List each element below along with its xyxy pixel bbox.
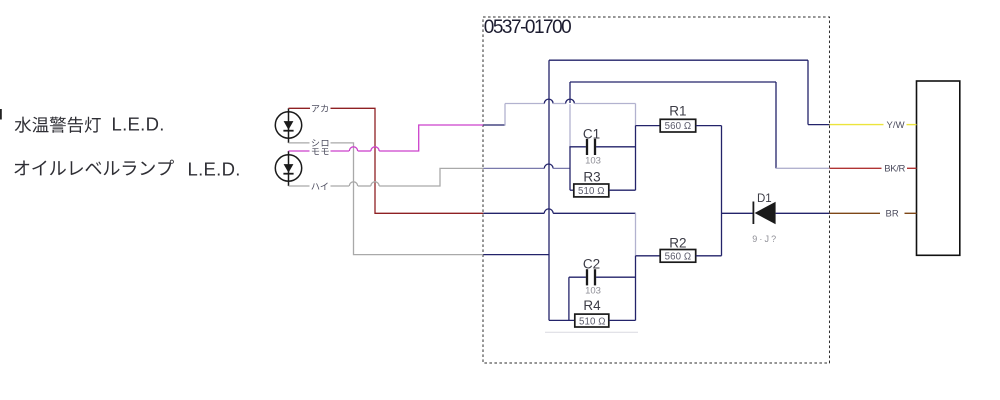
resistor R1 lead left (636, 125, 661, 127)
wire aka hop over rail (544, 209, 553, 213)
wire momo hop over rail 549 (544, 99, 553, 103)
resistor R3 lead left (570, 189, 574, 191)
wire label momo (312, 148, 329, 155)
faint artifact line (545, 331, 638, 333)
wire BR brown (830, 212, 881, 214)
resistor R2 lead right (696, 255, 722, 257)
dashed module boundary box (483, 17, 830, 363)
wire aka red run to box (331, 108, 484, 213)
svg-text:560 Ω: 560 Ω (665, 251, 692, 262)
wire shiro navy inside box (483, 254, 549, 256)
wire hai gray run c (379, 168, 483, 186)
wire hai gray run b (358, 185, 371, 187)
resistor R3 body (574, 184, 609, 197)
svg-text:510 Ω: 510 Ω (579, 316, 606, 327)
net hai lavender stub to border (776, 167, 830, 169)
wire momo lavender riser (504, 104, 506, 126)
wire momo magenta run c (379, 125, 483, 151)
wire momo lavender drop to R1 (635, 104, 637, 126)
wire Y/W yellow (830, 124, 884, 126)
net hai vertical lower (569, 147, 571, 190)
resistor R4 lead left (549, 319, 575, 321)
svg-text:510 Ω: 510 Ω (578, 186, 605, 197)
wire BR stub (905, 212, 917, 214)
caption water temp warning LED (15, 117, 101, 133)
LED2 cathode bar (283, 173, 293, 175)
svg-text:R1: R1 (669, 104, 686, 119)
svg-text:L.E.D.: L.E.D. (188, 158, 241, 179)
net hai drop to BK/R (775, 82, 777, 168)
wire aka navy inside box (483, 212, 544, 214)
LED1 water-temp lamp circle (275, 112, 301, 138)
capacitor C1 plate left (586, 139, 588, 155)
svg-text:103: 103 (585, 155, 601, 166)
net hai vertical upper (569, 82, 571, 103)
wire momo navy stub inside box (483, 124, 505, 126)
wire hai slate inside box (483, 167, 544, 169)
wire aka navy to node R2 (553, 212, 635, 214)
node C1 left lavender riser (569, 104, 571, 147)
resistor R4 lead right (609, 319, 636, 321)
net momo vertical rail (635, 126, 637, 191)
svg-text:103: 103 (585, 286, 601, 297)
net rail shiro vertical (548, 60, 550, 320)
capacitor C1 plate right (594, 139, 596, 155)
LED2 oil-level lamp circle (275, 155, 301, 181)
diode D1 cathode bar (752, 202, 754, 225)
LED2 anode lead wire (288, 151, 290, 186)
LED2 diode triangle (284, 164, 294, 173)
svg-text:BR: BR (886, 209, 899, 220)
capacitor C2 lead left (569, 276, 586, 278)
caption oil level lamp LED (14, 160, 174, 176)
connector block (917, 81, 960, 255)
wire aka lavender drop to R2 (635, 213, 637, 256)
wire hai gray run a (331, 185, 350, 187)
wire momo hop over aka (371, 147, 379, 151)
LED1 cathode lead wire (288, 108, 290, 143)
net aka vertical rail (635, 256, 637, 321)
net shiro top bus (549, 59, 808, 61)
wire hai hop over rail 549 (544, 164, 553, 168)
node R1-R2-D1 vertical (721, 126, 723, 256)
wire momo magenta run a (331, 150, 350, 152)
wire momo lavender top run b (553, 103, 566, 105)
resistor R2 body (660, 250, 696, 263)
wire hai hop over aka (371, 182, 379, 186)
capacitor C2 plate left (586, 269, 588, 285)
resistor R1 lead right (696, 125, 722, 127)
wire BK/R stub (907, 167, 917, 169)
capacitor C2 lead right (596, 276, 635, 278)
diode D1 anode wire (722, 212, 754, 214)
svg-text:560 Ω: 560 Ω (665, 121, 692, 132)
edge mark (0, 109, 2, 120)
wire label hai (311, 182, 327, 189)
net hai top bus (570, 81, 776, 83)
wire hai gray segment from LED2 (289, 185, 310, 187)
wire BK/R red (830, 167, 882, 169)
resistor R4 body (575, 314, 609, 327)
wire momo hop over rail 570 (566, 99, 575, 103)
capacitor C1 lead left (569, 146, 586, 148)
svg-text:9·J?: 9·J? (752, 234, 778, 244)
svg-text:Y/W: Y/W (887, 120, 905, 131)
wire label shiro (312, 139, 329, 146)
net shiro navy stub to border (808, 124, 830, 126)
resistor R2 lead left (636, 255, 661, 257)
svg-text:C2: C2 (583, 257, 600, 272)
svg-text:0537-01700: 0537-01700 (484, 17, 571, 38)
LED1 diode triangle (284, 121, 294, 130)
svg-text:R4: R4 (583, 298, 601, 313)
svg-text:C1: C1 (583, 126, 600, 141)
wire shiro gray run (331, 143, 484, 255)
svg-text:L.E.D.: L.E.D. (112, 114, 165, 135)
wire label aka (312, 105, 328, 113)
wire Y/W stub (907, 124, 917, 126)
wire hai hop over shiro (349, 182, 357, 186)
svg-text:R2: R2 (669, 235, 686, 250)
wire momo magenta segment from LED2 (289, 150, 310, 152)
wire momo lavender top run c (574, 103, 635, 105)
diode D1 output wire (776, 212, 830, 214)
svg-text:BK/R: BK/R (884, 164, 905, 175)
wire momo magenta run b (358, 150, 371, 152)
capacitor C1 lead right (596, 146, 635, 148)
wire aka red segment from LED1 (289, 107, 311, 109)
wire momo hop over shiro (349, 147, 357, 151)
wire shiro gray segment from LED1 (289, 142, 310, 144)
wire hai slate to node (553, 167, 570, 169)
LED1 cathode bar (283, 130, 293, 132)
capacitor C2 left riser (568, 277, 570, 320)
svg-text:R3: R3 (583, 170, 600, 185)
diode D1 triangle (755, 202, 776, 225)
net shiro drop to Y/W (807, 60, 809, 124)
resistor R3 lead right (609, 189, 636, 191)
resistor R1 body (660, 119, 696, 132)
svg-text:D1: D1 (757, 193, 772, 205)
capacitor C2 plate right (594, 269, 596, 285)
wire momo lavender top run a (505, 103, 544, 105)
